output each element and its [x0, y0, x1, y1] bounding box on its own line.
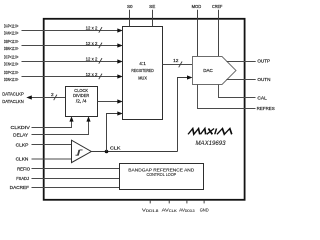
wire mux to DAC 12-bit bus: [163, 64, 193, 66]
power pin tick VDD1.8: [149, 200, 151, 204]
svg-text:DAC: DAC: [203, 68, 213, 73]
svg-text:DAP<11:0>: DAP<11:0>: [4, 23, 19, 28]
hysteresis symbol: [76, 150, 83, 155]
svg-text:12 x 2: 12 x 2: [86, 72, 98, 78]
bus slash A: [99, 27, 102, 33]
wire SE: [152, 10, 154, 27]
svg-text:MUX: MUX: [138, 75, 147, 80]
node CLK junction dot: [105, 150, 109, 154]
svg-text:DDN<11:0>: DDN<11:0>: [4, 77, 19, 82]
power pin tick GND: [203, 200, 205, 204]
svg-text:REFIO: REFIO: [17, 166, 30, 171]
svg-text:12: 12: [173, 58, 179, 64]
wire DACREF: [32, 187, 120, 189]
4:1 registered mux block: [123, 27, 163, 120]
wire CAL: [219, 85, 256, 98]
wire DELAY: [32, 120, 89, 134]
power pin tick AVDD3.3: [186, 200, 188, 204]
svg-text:CLKDIV: CLKDIV: [11, 125, 31, 130]
wire data bus D: [22, 76, 119, 78]
svg-text:MAX19693: MAX19693: [196, 140, 227, 147]
wire CREF: [218, 10, 220, 57]
svg-text:REGISTERED: REGISTERED: [131, 68, 154, 73]
svg-text:FSADJ: FSADJ: [16, 176, 29, 181]
svg-text:DATACLKP: DATACLKP: [2, 92, 24, 97]
bus slash DATACLK: [54, 95, 57, 101]
svg-text:OUTP: OUTP: [257, 59, 270, 64]
svg-text:4:1: 4:1: [139, 61, 146, 66]
svg-text:DATACLKN: DATACLKN: [2, 99, 24, 104]
wire divider to mux: [98, 101, 119, 103]
svg-text:AVCLK: AVCLK: [162, 207, 178, 213]
svg-text:CAL: CAL: [257, 95, 267, 100]
MAXIM logo: [188, 129, 233, 135]
wire REFRES: [198, 85, 256, 109]
wire OUTP: [227, 61, 256, 63]
svg-text:2: 2: [51, 92, 54, 98]
wire CLKP: [32, 144, 72, 146]
svg-text:12 x 2: 12 x 2: [86, 26, 98, 32]
svg-text:/2, /4: /2, /4: [76, 98, 87, 103]
chip outline MAX19693: [44, 19, 245, 200]
wire REFIO: [32, 168, 120, 170]
wire CLK to DAC: [178, 78, 189, 152]
wire CLKN: [32, 158, 72, 160]
svg-text:12 x 2: 12 x 2: [86, 57, 98, 63]
svg-text:S0: S0: [127, 4, 133, 9]
bus slash D: [99, 74, 102, 80]
svg-text:CONTROL LOOP: CONTROL LOOP: [146, 172, 176, 177]
svg-text:DBP<11:0>: DBP<11:0>: [4, 39, 19, 44]
svg-text:GND: GND: [200, 207, 209, 212]
wire FSADJ: [32, 178, 120, 180]
wire MOD: [197, 10, 199, 57]
svg-text:MOD: MOD: [192, 4, 202, 9]
svg-text:DCP<11:0>: DCP<11:0>: [4, 54, 19, 59]
svg-text:DDP<11:0>: DDP<11:0>: [4, 70, 19, 75]
power pin tick AVCLK: [168, 200, 170, 204]
svg-text:AVDD3.3: AVDD3.3: [179, 207, 195, 213]
wire CLK from comparator: [91, 151, 177, 153]
svg-text:OUTN: OUTN: [257, 77, 270, 82]
bus slash B: [99, 43, 102, 49]
wire data bus A: [22, 30, 119, 32]
svg-text:SE: SE: [149, 4, 155, 9]
wire CLKDIV: [32, 120, 72, 127]
bandgap reference block: [120, 164, 204, 190]
wire data bus C: [22, 61, 119, 63]
svg-text:CLKP: CLKP: [16, 143, 29, 148]
wire S0: [129, 10, 131, 27]
svg-text:DCN<11:0>: DCN<11:0>: [4, 62, 19, 67]
svg-text:CLKN: CLKN: [16, 156, 29, 161]
wire OUTN: [226, 79, 255, 81]
wire data bus B: [22, 45, 119, 47]
clock comparator with hysteresis: [72, 140, 92, 162]
bus slash 12: [179, 62, 182, 68]
svg-text:DELAY: DELAY: [13, 133, 28, 138]
wire CLK to mux: [107, 114, 119, 152]
svg-text:REFRES: REFRES: [257, 106, 275, 111]
svg-text:DBN<11:0>: DBN<11:0>: [4, 46, 19, 51]
svg-text:CLK: CLK: [110, 145, 121, 150]
DAC block: [193, 57, 237, 85]
svg-text:VDD1.8: VDD1.8: [142, 207, 159, 213]
svg-text:DACREF: DACREF: [10, 185, 29, 190]
svg-text:DAN<11:0>: DAN<11:0>: [4, 31, 19, 36]
svg-text:CREF: CREF: [212, 4, 223, 9]
clock divider block: [66, 87, 98, 117]
svg-text:12 x 2: 12 x 2: [86, 41, 98, 47]
wire DATACLK output: [30, 97, 66, 99]
bus slash C: [99, 58, 102, 64]
